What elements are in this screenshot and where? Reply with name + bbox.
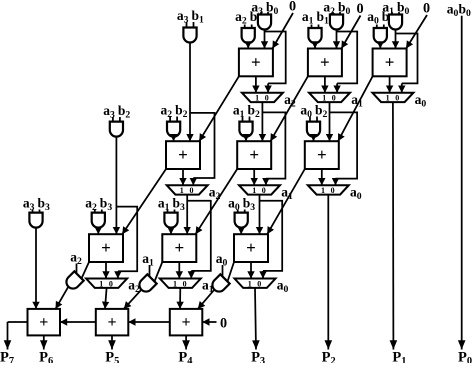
svg-text:+: +	[317, 145, 327, 164]
svg-text:1: 1	[180, 186, 184, 195]
svg-text:+: +	[249, 145, 259, 164]
svg-text:+: +	[246, 238, 256, 257]
svg-text:+: +	[39, 314, 48, 331]
svg-text:1: 1	[252, 186, 256, 195]
svg-text:0: 0	[257, 279, 261, 288]
svg-text:0: 0	[220, 316, 227, 332]
svg-text:0: 0	[356, 1, 363, 17]
svg-text:0: 0	[262, 186, 266, 195]
svg-text:1: 1	[321, 186, 325, 195]
svg-text:+: +	[385, 52, 395, 71]
svg-text:1: 1	[173, 279, 177, 288]
svg-text:0: 0	[190, 186, 194, 195]
svg-text:0: 0	[183, 279, 187, 288]
svg-text:1: 1	[248, 279, 252, 288]
svg-text:0: 0	[331, 186, 335, 195]
svg-text:+: +	[101, 238, 111, 257]
svg-text:0: 0	[289, 0, 296, 15]
svg-text:0: 0	[109, 279, 113, 288]
svg-text:+: +	[320, 52, 330, 71]
svg-text:+: +	[178, 145, 188, 164]
svg-text:1: 1	[255, 94, 259, 103]
svg-text:+: +	[182, 314, 191, 331]
svg-text:+: +	[251, 52, 261, 71]
svg-text:1: 1	[99, 279, 103, 288]
svg-text:1: 1	[322, 94, 326, 103]
svg-text:0: 0	[265, 94, 269, 103]
svg-text:+: +	[174, 238, 184, 257]
svg-text:0: 0	[395, 94, 399, 103]
svg-text:0: 0	[332, 94, 336, 103]
svg-text:+: +	[107, 314, 116, 331]
svg-text:0: 0	[423, 1, 430, 17]
svg-text:1: 1	[386, 94, 390, 103]
